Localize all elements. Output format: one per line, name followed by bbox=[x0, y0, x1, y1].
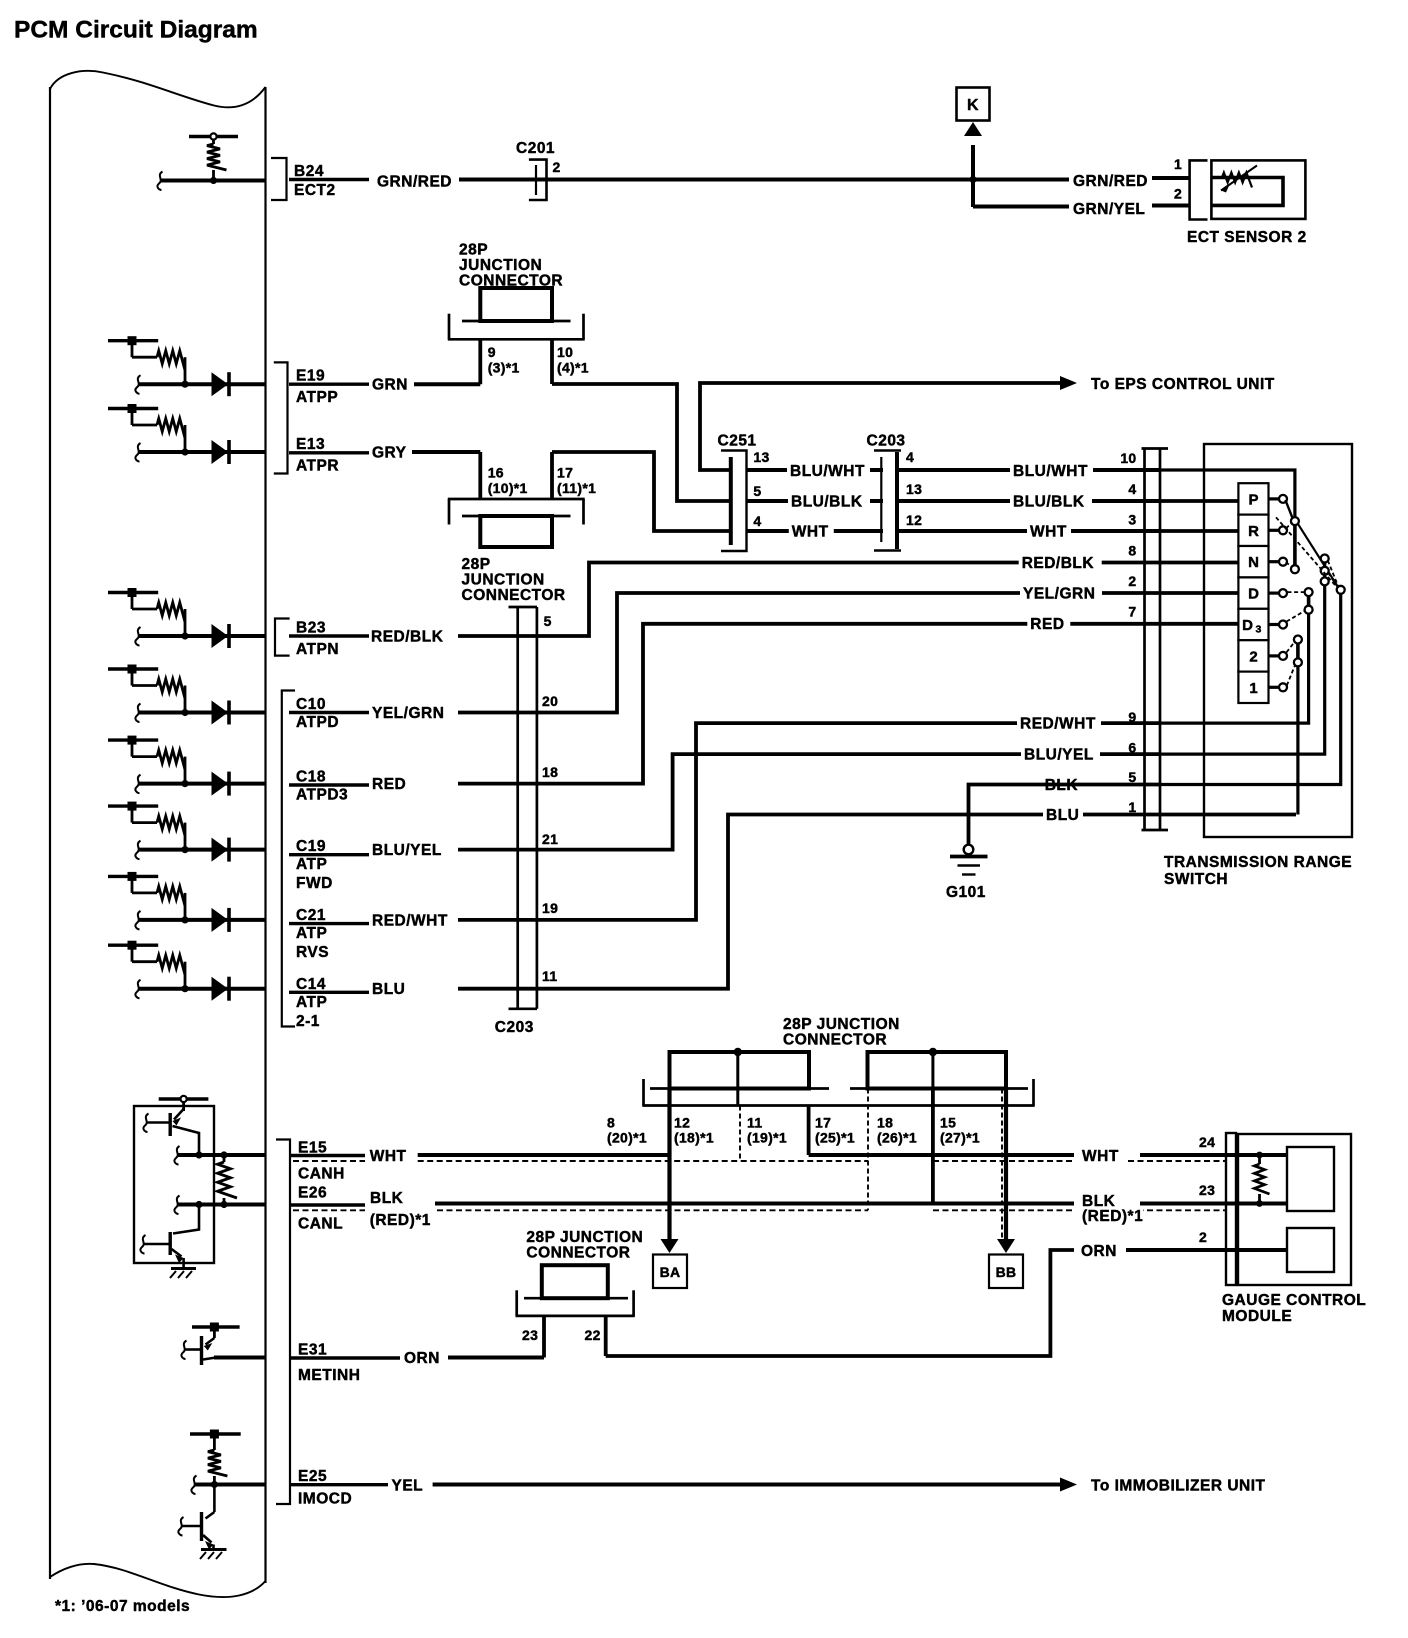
ground G101 bbox=[950, 845, 988, 875]
svg-text:MODULE: MODULE bbox=[1222, 1308, 1292, 1325]
svg-text:5: 5 bbox=[1128, 769, 1136, 785]
svg-text:20: 20 bbox=[542, 693, 558, 709]
resistor (gauge CAN termination) bbox=[1255, 1152, 1270, 1207]
svg-text:23: 23 bbox=[522, 1327, 538, 1343]
svg-text:E19: E19 bbox=[296, 368, 325, 385]
svg-text:RED/BLK: RED/BLK bbox=[1022, 555, 1095, 572]
svg-text:2: 2 bbox=[1128, 573, 1136, 589]
svg-text:BB: BB bbox=[996, 1264, 1017, 1280]
switch linkage (dashed) bbox=[1287, 665, 1295, 686]
switch position box D3 bbox=[1238, 609, 1287, 640]
wire GRN/YEL bbox=[973, 206, 1190, 207]
svg-text:11: 11 bbox=[747, 1115, 762, 1131]
svg-text:(4)*1: (4)*1 bbox=[557, 360, 589, 376]
svg-text:11: 11 bbox=[542, 968, 557, 984]
wire E25 IMOCD (internal) bbox=[191, 1476, 265, 1495]
pin label 12 (18)*1 (middle junction) bbox=[674, 1115, 714, 1146]
svg-text:(27)*1: (27)*1 bbox=[940, 1130, 980, 1146]
switch linkage (dashed) bbox=[1287, 611, 1306, 622]
switch linkage (dashed) bbox=[1286, 522, 1292, 528]
connector terminal E19/E13 bbox=[274, 362, 288, 473]
svg-text:10: 10 bbox=[1120, 450, 1136, 466]
svg-text:1: 1 bbox=[1128, 799, 1136, 815]
wire BLK (E26 to junction pin 15 and gauge pin 23) bbox=[435, 1202, 1236, 1206]
wire BLU/WHT (C203 to TRS pin 10) bbox=[897, 468, 1160, 472]
wire GRY (E13 to junction pin 16) bbox=[412, 450, 480, 454]
28P junction connector (middle) label bbox=[783, 1016, 900, 1049]
switch linkage (dashed) bbox=[1276, 517, 1338, 588]
stub from node (left box) bbox=[736, 1052, 739, 1106]
svg-text:18: 18 bbox=[877, 1115, 893, 1131]
wire C10 (PCM internal) bbox=[135, 704, 265, 723]
svg-text:E26: E26 bbox=[298, 1185, 327, 1202]
diode C18 bbox=[212, 772, 229, 796]
diode B23 bbox=[212, 624, 229, 648]
TRS wires pins 4,3,8,2,7 to position boxes bbox=[1160, 501, 1238, 624]
pin label 18 (26)*1 (middle junction) bbox=[877, 1115, 917, 1146]
switch arm D3 (solid) bbox=[1305, 588, 1313, 614]
svg-text:C10: C10 bbox=[296, 696, 326, 713]
svg-text:18: 18 bbox=[542, 764, 558, 780]
svg-text:2: 2 bbox=[1249, 648, 1257, 665]
connector C251 symbol bbox=[721, 451, 747, 552]
svg-text:P: P bbox=[1248, 491, 1258, 508]
wire ORN (junction pin 22 to gauge pin 2) bbox=[606, 1250, 1074, 1356]
wire to K (vertical) bbox=[971, 145, 975, 207]
contact circles cluster bbox=[1321, 555, 1329, 586]
svg-text:WHT: WHT bbox=[1082, 1148, 1119, 1165]
svg-text:BLU/BLK: BLU/BLK bbox=[791, 494, 863, 511]
wire label WHT (gauge) bbox=[1079, 1149, 1123, 1165]
dashed wire RED (06-07 models) bbox=[293, 1209, 1226, 1211]
pull-up rail (E31) bbox=[192, 1323, 240, 1339]
svg-text:CONNECTOR: CONNECTOR bbox=[462, 587, 566, 604]
svg-text:WHT: WHT bbox=[792, 524, 829, 541]
wire B24 ECT2 (PCM internal) bbox=[157, 172, 265, 191]
connector terminal B24 bbox=[271, 158, 287, 200]
wire E15 CANH (internal) bbox=[174, 1146, 265, 1165]
pin label E26 / CANL bbox=[289, 1185, 365, 1233]
wire label BLU/YEL (right) bbox=[1021, 747, 1100, 763]
svg-text:E31: E31 bbox=[298, 1342, 327, 1359]
svg-text:CONNECTOR: CONNECTOR bbox=[526, 1245, 630, 1262]
junction connector box (right) bbox=[868, 1052, 1007, 1089]
svg-text:RED: RED bbox=[372, 776, 406, 793]
28P junction connector (top) label bbox=[459, 242, 563, 290]
wire GRN (E19 to junction pin 9) bbox=[414, 382, 480, 386]
svg-text:17: 17 bbox=[815, 1115, 831, 1131]
ground (E25 driver) bbox=[200, 1550, 227, 1560]
wire label BLU/WHT (right) bbox=[1010, 464, 1093, 480]
wire WHT (C203 to TRS pin 3) bbox=[897, 529, 1160, 533]
pin label 11 (19)*1 (middle junction) bbox=[747, 1115, 787, 1146]
component label GAUGE CONTROL MODULE bbox=[1222, 1292, 1366, 1325]
pull-up rail with circle (CAN) bbox=[159, 1096, 209, 1111]
svg-text:BA: BA bbox=[660, 1264, 681, 1280]
wire B23 (PCM internal) bbox=[135, 627, 265, 646]
pin label 17 (11)*1 bbox=[557, 465, 596, 497]
svg-text:(19)*1: (19)*1 bbox=[747, 1130, 787, 1146]
svg-text:22: 22 bbox=[585, 1327, 601, 1343]
svg-text:9: 9 bbox=[488, 344, 496, 360]
resistor network C18 (internal pull-up) bbox=[108, 736, 189, 788]
arrow to BB bbox=[997, 1239, 1015, 1253]
wire BLU/BLK (C203 to TRS pin 4) bbox=[897, 499, 1160, 503]
junction pin 22 stub bbox=[604, 1316, 608, 1356]
svg-text:PCM Circuit Diagram: PCM Circuit Diagram bbox=[14, 17, 258, 44]
wire label RED (right) bbox=[1027, 617, 1070, 633]
svg-text:3: 3 bbox=[1256, 624, 1262, 636]
diode C19 bbox=[212, 838, 229, 862]
wire label BLK (RED)*1 (gauge) bbox=[1079, 1193, 1143, 1225]
transistor Q4 (IMOCD) bbox=[178, 1485, 214, 1550]
wire E31 METINH (internal) bbox=[214, 1356, 266, 1360]
svg-text:BLU/YEL: BLU/YEL bbox=[1024, 747, 1094, 764]
junction connector box (left) bbox=[670, 1052, 810, 1089]
svg-text:D: D bbox=[1248, 586, 1259, 603]
svg-text:28P JUNCTION: 28P JUNCTION bbox=[526, 1229, 643, 1246]
switch linkage (dashed) bbox=[1288, 591, 1305, 593]
transistor Q2 (CANL driver) bbox=[140, 1205, 199, 1268]
svg-text:21: 21 bbox=[542, 831, 558, 847]
switch position box R bbox=[1238, 515, 1287, 546]
gauge internal box (bottom) bbox=[1287, 1228, 1334, 1272]
svg-text:BLU/WHT: BLU/WHT bbox=[790, 463, 865, 480]
pin label E31 / METINH bbox=[289, 1342, 400, 1385]
wire RED (C18 via C203 pin18 to TRS pin 7) bbox=[458, 624, 1160, 784]
junction pin 12 / BA drop wire bbox=[667, 1089, 671, 1240]
svg-text:B23: B23 bbox=[296, 620, 326, 637]
dashed wire WHT (06-07 models) bbox=[293, 1160, 1226, 1162]
junction pin 27 dashed drop bbox=[1001, 1089, 1003, 1240]
wire label RED/WHT (right) bbox=[1017, 716, 1101, 732]
junction node (left box) bbox=[734, 1048, 742, 1056]
pin label C10 bbox=[289, 696, 369, 731]
pin label B24 / ECT2 bbox=[289, 163, 369, 199]
CAN transceiver box bbox=[134, 1106, 214, 1263]
svg-text:2: 2 bbox=[1199, 1229, 1207, 1245]
pin label 15 (27)*1 (middle junction) bbox=[940, 1115, 980, 1146]
svg-text:GRY: GRY bbox=[372, 445, 407, 462]
svg-text:12: 12 bbox=[906, 512, 922, 528]
svg-text:28P: 28P bbox=[459, 242, 488, 259]
wire to EPS control unit (BLU/WHT branch) bbox=[700, 383, 1060, 470]
svg-text:C21: C21 bbox=[296, 907, 326, 924]
svg-text:BLU/BLK: BLU/BLK bbox=[1013, 494, 1085, 511]
svg-text:GRN: GRN bbox=[372, 377, 408, 394]
arrow into K bbox=[964, 122, 982, 136]
svg-text:(25)*1: (25)*1 bbox=[815, 1130, 855, 1146]
svg-text:(26)*1: (26)*1 bbox=[877, 1130, 917, 1146]
svg-text:GAUGE CONTROL: GAUGE CONTROL bbox=[1222, 1292, 1366, 1309]
svg-text:BLU/WHT: BLU/WHT bbox=[1013, 463, 1088, 480]
svg-text:(RED)*1: (RED)*1 bbox=[370, 1212, 431, 1229]
svg-text:FWD: FWD bbox=[296, 875, 333, 892]
boxed label BB bbox=[989, 1255, 1023, 1289]
switch position box D bbox=[1238, 577, 1287, 608]
svg-text:METINH: METINH bbox=[298, 1367, 360, 1384]
28P junction connector (top) symbol bbox=[448, 288, 585, 339]
node junction to K bbox=[969, 176, 976, 183]
connector terminal E15-E25 bbox=[276, 1140, 290, 1505]
svg-text:15: 15 bbox=[940, 1115, 956, 1131]
svg-text:RVS: RVS bbox=[296, 944, 329, 961]
svg-text:RED: RED bbox=[1030, 616, 1064, 633]
junction pin 11 dashed stub bbox=[739, 1106, 741, 1162]
pivot contact circle bbox=[1337, 586, 1345, 594]
switch position box P bbox=[1238, 483, 1287, 514]
svg-text:YEL/GRN: YEL/GRN bbox=[1023, 586, 1095, 603]
TRS wire pin 9 feed bbox=[1160, 613, 1309, 723]
stub from node (right box) bbox=[931, 1052, 934, 1106]
svg-text:8: 8 bbox=[1128, 543, 1136, 559]
pin label C18 bbox=[289, 769, 369, 804]
svg-text:N: N bbox=[1248, 554, 1259, 571]
resistor network C21 (internal pull-up) bbox=[108, 872, 189, 924]
arrow to immobilizer bbox=[1060, 1478, 1077, 1492]
svg-text:G101: G101 bbox=[946, 884, 986, 901]
svg-text:WHT: WHT bbox=[370, 1148, 407, 1165]
svg-text:ATPD3: ATPD3 bbox=[296, 787, 348, 804]
switch linkage (dashed) bbox=[1287, 642, 1295, 653]
svg-text:17: 17 bbox=[557, 465, 573, 481]
wire BLU/YEL (C19 via C203 pin21 to TRS pin 6) bbox=[458, 754, 1160, 850]
svg-text:E13: E13 bbox=[296, 436, 325, 453]
wire label WHT (right) bbox=[1027, 524, 1071, 540]
gauge pin 23 wire bbox=[1236, 1202, 1287, 1206]
28P junction connector (bottom) label bbox=[526, 1229, 643, 1262]
transmission range switch outer box bbox=[1204, 444, 1352, 837]
svg-text:5: 5 bbox=[544, 613, 552, 629]
svg-text:ATP: ATP bbox=[296, 925, 327, 942]
svg-text:(3)*1: (3)*1 bbox=[488, 360, 520, 376]
svg-text:1: 1 bbox=[1174, 156, 1182, 172]
28P junction connector (second) label bbox=[462, 556, 566, 604]
wire junction pin17 to C251 pin4 bbox=[552, 452, 730, 531]
pin label 16 (10)*1 bbox=[488, 465, 528, 497]
svg-text:ORN: ORN bbox=[1081, 1243, 1117, 1260]
TRS wire pin10 to common arm bbox=[1160, 470, 1295, 517]
wire C18 (PCM internal) bbox=[135, 775, 265, 794]
junction pin 18 dashed stub bbox=[867, 1089, 869, 1211]
svg-text:13: 13 bbox=[753, 449, 769, 465]
gauge pin 24 wire bbox=[1236, 1153, 1287, 1157]
svg-text:3: 3 bbox=[1128, 512, 1136, 528]
svg-text:ECT SENSOR 2: ECT SENSOR 2 bbox=[1187, 229, 1307, 246]
svg-text:24: 24 bbox=[1199, 1134, 1215, 1150]
diode C21 bbox=[212, 908, 229, 932]
pin label E13 / ATPR bbox=[289, 436, 369, 475]
junction pin 16 stub bbox=[478, 452, 482, 499]
svg-text:BLU: BLU bbox=[372, 981, 405, 998]
svg-text:10: 10 bbox=[557, 344, 573, 360]
svg-text:ORN: ORN bbox=[404, 1350, 440, 1367]
gauge pin 2 wire bbox=[1236, 1248, 1287, 1252]
PCM module outline (torn-edge box) bbox=[50, 71, 266, 1597]
svg-text:BLK: BLK bbox=[370, 1190, 404, 1207]
wire C21 (PCM internal) bbox=[135, 911, 265, 930]
junction node (right box) bbox=[929, 1048, 937, 1056]
svg-text:C14: C14 bbox=[296, 976, 326, 993]
svg-text:C203: C203 bbox=[495, 1019, 534, 1036]
svg-text:E25: E25 bbox=[298, 1468, 327, 1485]
svg-text:IMOCD: IMOCD bbox=[298, 1491, 352, 1508]
svg-text:R: R bbox=[1248, 523, 1259, 540]
svg-text:WHT: WHT bbox=[1030, 524, 1067, 541]
svg-text:CONNECTOR: CONNECTOR bbox=[783, 1032, 887, 1049]
pin label C21 bbox=[289, 907, 369, 961]
svg-text:GRN/RED: GRN/RED bbox=[1073, 173, 1148, 190]
resistor network C19 (internal pull-up) bbox=[108, 802, 189, 854]
wire E13 (PCM internal) bbox=[135, 443, 265, 462]
wire label BLU/BLK bbox=[788, 494, 870, 510]
wire E26 CANL (internal) bbox=[174, 1196, 265, 1215]
switch arm P-R (solid) bbox=[1285, 500, 1299, 573]
TRS wire pin 1 feed bbox=[1296, 666, 1299, 815]
wire label YEL/GRN (right) bbox=[1020, 586, 1102, 602]
boxed label K bbox=[957, 88, 990, 121]
svg-text:C19: C19 bbox=[296, 838, 326, 855]
switch position box 2 bbox=[1238, 640, 1287, 671]
TRS wire pin 5 feed bbox=[1160, 593, 1341, 784]
pin label C19 bbox=[289, 838, 369, 892]
svg-text:K: K bbox=[967, 97, 979, 114]
wire label RED/BLK (right) bbox=[1019, 556, 1102, 572]
svg-text:(20)*1: (20)*1 bbox=[607, 1130, 647, 1146]
svg-text:C251: C251 bbox=[718, 433, 757, 450]
svg-text:2: 2 bbox=[1174, 186, 1182, 202]
svg-text:CANH: CANH bbox=[298, 1166, 345, 1183]
svg-text:To EPS CONTROL UNIT: To EPS CONTROL UNIT bbox=[1091, 376, 1275, 393]
gauge control module box bbox=[1238, 1134, 1351, 1285]
svg-text:28P JUNCTION: 28P JUNCTION bbox=[783, 1016, 900, 1033]
svg-text:TRANSMISSION RANGE: TRANSMISSION RANGE bbox=[1164, 854, 1352, 871]
svg-text:*1: ’06-07 models: *1: ’06-07 models bbox=[55, 1598, 190, 1615]
28P junction connector (middle) bar bbox=[642, 1079, 1034, 1106]
pin label B23 / ATPN bbox=[289, 620, 369, 659]
resistor network C10 (internal pull-up) bbox=[108, 665, 189, 717]
wire WHT (C251-C203) bbox=[747, 529, 884, 533]
svg-text:(RED)*1: (RED)*1 bbox=[1082, 1208, 1143, 1225]
wire junction pin10 to C251 pin5 bbox=[552, 384, 730, 501]
ECT sensor 2 body (thermistor) bbox=[1211, 160, 1305, 219]
wire label WHT bbox=[789, 524, 834, 540]
svg-text:GRN/YEL: GRN/YEL bbox=[1073, 201, 1145, 218]
switch position box 1 bbox=[1238, 672, 1287, 703]
switch linkage (dashed) bbox=[1286, 562, 1293, 568]
ground (CAN driver) bbox=[170, 1269, 196, 1279]
connector terminal C10-C14 bbox=[282, 691, 295, 1027]
connector (gauge 24P) bbox=[1226, 1133, 1236, 1285]
diode E13 bbox=[212, 440, 229, 464]
svg-text:13: 13 bbox=[906, 481, 922, 497]
wire label ORN (gauge) bbox=[1078, 1244, 1121, 1260]
svg-text:RED/WHT: RED/WHT bbox=[372, 912, 448, 929]
svg-text:2: 2 bbox=[553, 159, 561, 175]
svg-text:8: 8 bbox=[607, 1115, 615, 1131]
svg-text:BLU/YEL: BLU/YEL bbox=[372, 842, 442, 859]
wire GRN/RED (B24 to C201 to ECT sensor) bbox=[459, 178, 1190, 180]
wire ORN (gauge side) bbox=[1126, 1248, 1236, 1252]
svg-text:C18: C18 bbox=[296, 769, 326, 786]
junction pin 15 stub bbox=[931, 1089, 935, 1204]
wire WHT (junction pin 17 to gauge pin 24) bbox=[809, 1153, 1236, 1157]
resistor network E13 (internal pull-up) bbox=[108, 404, 189, 456]
junction BB drop wire bbox=[1004, 1089, 1008, 1240]
resistor pull-up (B24 ECT2 internal) bbox=[189, 133, 238, 184]
svg-text:ATPR: ATPR bbox=[296, 458, 339, 475]
resistor (CAN termination) bbox=[218, 1155, 238, 1205]
wire WHT (E15 to junction pin 12) bbox=[418, 1153, 670, 1157]
diode C14 bbox=[212, 977, 229, 1001]
switch position box N bbox=[1238, 546, 1287, 577]
diode C10 bbox=[212, 701, 229, 725]
connector C203 (long bar) bbox=[509, 607, 538, 1009]
junction pin 10 stub bbox=[550, 339, 554, 384]
gauge internal box (top) bbox=[1287, 1147, 1334, 1211]
svg-text:12: 12 bbox=[674, 1115, 690, 1131]
svg-text:YEL/GRN: YEL/GRN bbox=[372, 705, 444, 722]
svg-text:C203: C203 bbox=[867, 433, 906, 450]
pin label E19 / ATPP bbox=[289, 368, 369, 407]
pin label 10 (4)*1 bbox=[557, 344, 589, 376]
arrow to EPS bbox=[1060, 376, 1077, 390]
svg-text:To IMMOBILIZER UNIT: To IMMOBILIZER UNIT bbox=[1091, 1478, 1266, 1495]
svg-text:28P: 28P bbox=[462, 556, 491, 573]
connector half (ECT sensor 2) bbox=[1190, 160, 1208, 219]
pin label 17 (25)*1 (middle junction) bbox=[815, 1115, 855, 1146]
pull-up rail (E25) bbox=[190, 1430, 241, 1451]
wire YEL (to immobilizer) bbox=[433, 1483, 1060, 1487]
svg-text:JUNCTION: JUNCTION bbox=[462, 572, 545, 589]
svg-text:C201: C201 bbox=[516, 140, 555, 157]
transistor Q3 (METINH) bbox=[181, 1336, 216, 1365]
switch linkage (dashed) bbox=[1328, 561, 1339, 588]
wire label BLK (right) bbox=[1042, 778, 1084, 794]
svg-text:4: 4 bbox=[906, 449, 914, 465]
svg-text:16: 16 bbox=[488, 465, 504, 481]
switch linkage (dashed) bbox=[1328, 573, 1338, 588]
svg-text:ECT2: ECT2 bbox=[294, 182, 336, 199]
svg-text:ATPN: ATPN bbox=[296, 641, 339, 658]
svg-text:ATPP: ATPP bbox=[296, 389, 338, 406]
svg-text:9: 9 bbox=[1128, 709, 1136, 725]
svg-text:2-1: 2-1 bbox=[296, 1013, 320, 1030]
svg-text:YEL: YEL bbox=[392, 1478, 424, 1495]
wire BLU (C14 via C203 pin11 to TRS pin 1) bbox=[458, 815, 1296, 989]
svg-text:BLU: BLU bbox=[1046, 807, 1079, 824]
svg-text:RED/WHT: RED/WHT bbox=[1020, 716, 1096, 733]
svg-text:4: 4 bbox=[1128, 481, 1136, 497]
pin label 9 (3)*1 bbox=[488, 344, 520, 376]
svg-text:19: 19 bbox=[542, 900, 558, 916]
arrow to BA bbox=[661, 1239, 679, 1253]
resistor (E25) bbox=[208, 1450, 228, 1476]
svg-text:(10)*1: (10)*1 bbox=[488, 480, 528, 496]
wire BLU/BLK (C251-C203) bbox=[747, 499, 884, 503]
junction pin 9 stub bbox=[478, 339, 482, 384]
wire RED/WHT (C21 via C203 pin19 to TRS pin 9) bbox=[458, 723, 1160, 920]
28P junction connector (bottom) symbol bbox=[516, 1265, 635, 1316]
svg-text:D: D bbox=[1242, 617, 1253, 634]
connector (TRS 10P) vertical bar bbox=[1142, 449, 1169, 831]
TRS wire pin 6 feed bbox=[1160, 562, 1325, 754]
pin label E25 / IMOCD bbox=[289, 1468, 388, 1508]
switch rotor arm (solid diagonal to pivot) bbox=[1298, 524, 1338, 588]
wire label BLU/WHT bbox=[787, 464, 870, 480]
svg-text:6: 6 bbox=[1128, 740, 1136, 756]
resistor network E19 (internal pull-up) bbox=[108, 336, 189, 388]
